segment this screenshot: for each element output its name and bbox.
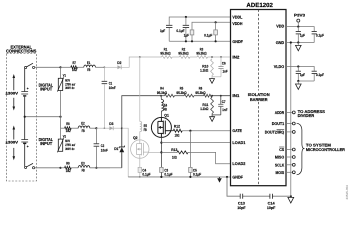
svg-text:±300V: ±300V bbox=[6, 141, 19, 145]
resistor R5 95.3k bbox=[184, 94, 194, 97]
wire common node up to V1 bbox=[60, 91, 62, 117]
svg-text:ADE1202: ADE1202 bbox=[246, 2, 273, 9]
svg-text:+: + bbox=[27, 144, 29, 148]
wire R6 to IN1 pin bbox=[212, 95, 230, 97]
svg-text:390V dc: 390V dc bbox=[65, 86, 74, 90]
junction VLDO/caps bbox=[297, 65, 299, 67]
junction GNDF pin bbox=[226, 176, 228, 178]
capacitor C7 1nF bbox=[220, 96, 222, 104]
wire V1 node to R7 bbox=[61, 66, 71, 68]
junction C1 bottom bbox=[104, 127, 106, 129]
wire D2 to riser and IN2 line bbox=[121, 57, 161, 67]
isolation barrier dashed line bbox=[258, 10, 260, 186]
junction R10 top bbox=[211, 56, 213, 58]
svg-text:10Ω: 10Ω bbox=[175, 133, 180, 137]
resistor R1 95.3k bbox=[162, 56, 173, 59]
wire Q1 source down bbox=[160, 137, 162, 167]
wire D3 to D1 junction bbox=[113, 127, 122, 129]
svg-text:E2: E2 bbox=[81, 122, 84, 126]
svg-text:C1: C1 bbox=[109, 81, 112, 85]
label ISOLATION BARRIER bbox=[245, 91, 272, 103]
capacitor 1uF (VDDH, box) bbox=[190, 30, 194, 35]
ferrite bead E1 bbox=[84, 65, 96, 67]
svg-text:DOUT2/IRQ: DOUT2/IRQ bbox=[265, 129, 285, 134]
IC U1 ADE1202 box bbox=[231, 10, 287, 186]
svg-text:1nF: 1nF bbox=[222, 108, 228, 112]
svg-text:95.3kΩ: 95.3kΩ bbox=[196, 52, 206, 56]
junction C3 rail bbox=[160, 176, 162, 178]
wire LOAD1 bbox=[161, 142, 230, 144]
capacitor 0.1uF (VDDH, box) bbox=[215, 22, 217, 30]
bottom source down arrow bbox=[13, 148, 15, 157]
junction battery center tap bbox=[24, 116, 26, 118]
svg-text:FB: FB bbox=[87, 68, 90, 72]
svg-text:1.1kΩ: 1.1kΩ bbox=[200, 107, 208, 111]
svg-text:0.1μF: 0.1μF bbox=[164, 173, 173, 177]
battery B2 (bottom +-300V source) bbox=[24, 117, 26, 140]
ground IN2 RC (open triangle) bbox=[211, 77, 213, 79]
junction gate/C5 bbox=[189, 130, 191, 132]
svg-text:+: + bbox=[27, 86, 29, 90]
svg-text:V1: V1 bbox=[63, 74, 66, 78]
svg-text:0.1μF: 0.1μF bbox=[142, 173, 151, 177]
external connections dashed box bbox=[7, 54, 37, 182]
junction C6 top bbox=[220, 56, 222, 58]
wire VDDL rail bbox=[169, 17, 230, 25]
wire R10-C6 join bbox=[212, 76, 221, 78]
junction VDDH 0.1uF bottom bbox=[215, 40, 217, 42]
capacitor 1uF (VLDO) bbox=[297, 67, 299, 71]
varistor V2 bbox=[60, 128, 62, 139]
top source down arrow bbox=[13, 98, 15, 107]
ground under VLDO caps (open triangle) bbox=[297, 81, 299, 84]
wire R13 to LOAD2 bbox=[188, 152, 231, 163]
svg-text:0.1μF: 0.1μF bbox=[316, 33, 325, 37]
wire Q2 gate to R13 node bbox=[148, 151, 161, 153]
svg-text:95.3kΩ: 95.3kΩ bbox=[157, 91, 167, 95]
wire IN2 node down to E5 bbox=[139, 57, 141, 122]
logic ground (open triangle, bottom right) bbox=[288, 197, 294, 203]
svg-text:95.3kΩ: 95.3kΩ bbox=[176, 91, 186, 95]
resistor R8 10ohm bbox=[65, 127, 72, 130]
varistor V1 bbox=[60, 67, 62, 78]
junction VDDH 1uF bottom bbox=[191, 40, 193, 42]
svg-text:10Ω: 10Ω bbox=[172, 155, 177, 159]
ferrite bead E3 bbox=[78, 166, 90, 168]
wire R11-C7 join bbox=[212, 114, 221, 116]
wire R4-R5 bbox=[175, 95, 185, 97]
resistor R3 95.3k bbox=[197, 56, 208, 59]
svg-text:1μF: 1μF bbox=[184, 34, 190, 38]
wire common node down to middle line bbox=[60, 117, 62, 129]
wire V2 node to R9 bbox=[61, 167, 65, 169]
svg-text:MICROCONTROLLER: MICROCONTROLLER bbox=[306, 147, 345, 152]
svg-text:10pF: 10pF bbox=[237, 206, 246, 210]
svg-text:C7: C7 bbox=[222, 100, 226, 104]
wire E3 to D1 bbox=[90, 167, 110, 169]
wire C2 node to D3 bbox=[96, 127, 109, 129]
wire Q2 source to C4 bbox=[139, 158, 141, 167]
wire C1 node to D2 bbox=[104, 66, 117, 68]
junction stitching rail / logic gnd bbox=[290, 195, 292, 197]
svg-text:VDDL: VDDL bbox=[232, 15, 243, 20]
svg-text:BARRIER: BARRIER bbox=[250, 97, 268, 102]
capacitor 1uF (VDD) bbox=[297, 27, 299, 32]
svg-text:FB: FB bbox=[82, 169, 85, 173]
svg-text:MOSI: MOSI bbox=[276, 170, 285, 175]
svg-text:10Ω: 10Ω bbox=[66, 169, 71, 173]
field ground rail bbox=[128, 176, 230, 178]
svg-text:VDD: VDD bbox=[276, 23, 284, 28]
svg-text:Q2: Q2 bbox=[133, 136, 138, 140]
svg-text:INPUT: INPUT bbox=[40, 87, 52, 92]
svg-text:C14: C14 bbox=[268, 201, 276, 205]
svg-text:GATE: GATE bbox=[232, 128, 242, 133]
wire E1 to C1 node bbox=[95, 66, 104, 68]
svg-text:C13: C13 bbox=[238, 201, 245, 205]
junction D1 / IN1 riser bbox=[121, 127, 123, 129]
ferrite bead E2 bbox=[78, 126, 90, 128]
wire IN1 riser bbox=[122, 96, 161, 129]
svg-text:D3: D3 bbox=[109, 122, 113, 126]
junction R13 left bbox=[160, 151, 162, 153]
svg-text:GNDF: GNDF bbox=[232, 175, 243, 180]
wire R12 to GATE pin bbox=[182, 130, 230, 132]
wire R5-R6 bbox=[194, 95, 204, 97]
svg-text:ADDR: ADDR bbox=[275, 110, 285, 115]
wire top switch to node bbox=[35, 66, 61, 68]
svg-text:R13: R13 bbox=[171, 148, 177, 152]
svg-text:FB: FB bbox=[82, 129, 85, 133]
svg-text:GNDF: GNDF bbox=[232, 39, 243, 44]
svg-text:IN2: IN2 bbox=[232, 55, 240, 60]
svg-text:10pF: 10pF bbox=[267, 206, 276, 210]
logic ground under VDD caps (open triangle) bbox=[297, 43, 299, 46]
svg-text:VDDH: VDDH bbox=[232, 21, 242, 26]
top source up arrow bbox=[13, 77, 15, 90]
right pin stubs and terminals (ADDR DOUT1 DOUT2 CS MISO SCLK MOSI) bbox=[286, 111, 292, 113]
wire MOV node to R8 bbox=[61, 127, 65, 129]
wire E5 to Q2 bbox=[139, 132, 141, 141]
ground IN1 RC (open triangle) bbox=[211, 115, 213, 117]
svg-text:R12: R12 bbox=[174, 125, 180, 129]
ferrite bead E4 bbox=[160, 96, 162, 100]
wire R9 to E3 bbox=[71, 167, 78, 169]
svg-text:LOAD2: LOAD2 bbox=[232, 161, 246, 166]
capacitor C6 1nF bbox=[220, 57, 222, 66]
wire R8 to E2 bbox=[71, 127, 78, 129]
junction C1 top bbox=[104, 66, 106, 68]
svg-text:1μF: 1μF bbox=[160, 29, 166, 33]
svg-text:V2: V2 bbox=[63, 135, 66, 139]
svg-text:R7: R7 bbox=[73, 61, 76, 65]
VLDO net wire bbox=[286, 67, 314, 71]
capacitor 0.1uF (VLDO) bbox=[312, 70, 317, 72]
transistor Q2 (optional FET) bbox=[131, 140, 149, 158]
svg-text:CS: CS bbox=[279, 147, 284, 152]
svg-text:LOAD1: LOAD1 bbox=[232, 140, 246, 145]
svg-text:INPUT: INPUT bbox=[40, 141, 52, 146]
svg-text:FB: FB bbox=[144, 128, 147, 132]
GNDF rail top bbox=[169, 40, 230, 42]
svg-text:IN1: IN1 bbox=[232, 93, 240, 98]
wire R1-R2 bbox=[172, 56, 179, 58]
svg-text:VLDO: VLDO bbox=[274, 64, 285, 69]
svg-text:D2: D2 bbox=[117, 61, 121, 65]
svg-text:FB: FB bbox=[164, 108, 167, 112]
svg-text:DOUT1: DOUT1 bbox=[272, 121, 285, 126]
svg-text:CONNECTIONS: CONNECTIONS bbox=[6, 49, 37, 54]
resistor R12 10ohm bbox=[173, 129, 182, 132]
svg-text:0.1μF: 0.1μF bbox=[204, 34, 213, 38]
resistor R4 95.3k bbox=[165, 94, 175, 97]
switch S2 (bottom) bbox=[25, 166, 27, 168]
common center-tap wire bbox=[25, 116, 61, 118]
battery B1 (top +-300V source) bbox=[24, 68, 26, 91]
capacitor C3 0.1uF (box) bbox=[160, 167, 163, 172]
capacitor C2 10nF bbox=[95, 128, 97, 143]
zener diode D1 bbox=[121, 128, 123, 146]
diode D3 bbox=[109, 126, 113, 130]
svg-text:R9: R9 bbox=[66, 162, 69, 166]
GND descender to stitching rail bbox=[290, 43, 292, 197]
svg-text:C6: C6 bbox=[222, 62, 226, 66]
svg-text:95.3kΩ: 95.3kΩ bbox=[160, 52, 170, 56]
svg-text:R8: R8 bbox=[66, 122, 69, 126]
svg-text:E1: E1 bbox=[87, 61, 90, 65]
svg-text:E3: E3 bbox=[81, 161, 84, 165]
wire R7 to E1 bbox=[77, 66, 83, 68]
svg-text:10Ω: 10Ω bbox=[66, 129, 71, 133]
svg-text:0.1μF: 0.1μF bbox=[316, 73, 325, 77]
wire VDDH rail bbox=[192, 22, 231, 30]
junction 0.1uF VDDH top bbox=[215, 21, 217, 23]
svg-text:Q1: Q1 bbox=[164, 114, 169, 118]
junction common / MOV column bbox=[59, 116, 61, 118]
svg-text:GND: GND bbox=[276, 40, 285, 45]
brace to system microcontroller bbox=[297, 123, 304, 175]
resistor R10 1.1k bbox=[211, 59, 214, 76]
svg-text:1μF: 1μF bbox=[300, 73, 306, 77]
capacitor 0.1uF (VDD) bbox=[312, 31, 317, 33]
resistor R6 95.3k bbox=[204, 94, 213, 97]
svg-text:95.3kΩ: 95.3kΩ bbox=[178, 52, 188, 56]
capacitor C4 0.1uF (box) bbox=[138, 167, 141, 172]
junction P3V3/VDD bbox=[297, 26, 299, 28]
svg-text:0.1μF: 0.1μF bbox=[193, 173, 202, 177]
switch S1 (top) bbox=[25, 66, 27, 68]
svg-text:P3V3: P3V3 bbox=[294, 13, 305, 17]
svg-text:DIVIDER: DIVIDER bbox=[298, 113, 315, 118]
svg-text:1μF: 1μF bbox=[300, 33, 306, 37]
svg-text:10nF: 10nF bbox=[101, 148, 109, 152]
GND net wire bbox=[286, 42, 314, 44]
wire bottom switch to node bbox=[35, 167, 61, 169]
resistor R13 10ohm bbox=[161, 151, 177, 153]
junction C4 rail bbox=[139, 176, 141, 178]
resistor R2 95.3k bbox=[179, 56, 190, 59]
svg-text:1nF: 1nF bbox=[223, 70, 229, 74]
svg-text:23515-004: 23515-004 bbox=[345, 185, 349, 200]
wire R2-R3 bbox=[190, 56, 197, 58]
VDD net wire bbox=[286, 27, 314, 32]
wire GNDF to stitching rail bbox=[227, 177, 290, 196]
junction C5 rail bbox=[189, 176, 191, 178]
junction LOAD1 bbox=[160, 142, 162, 144]
junction GND descender bbox=[290, 41, 292, 43]
VLDO caps bottom join bbox=[298, 80, 314, 82]
junction E4 top bbox=[160, 95, 162, 97]
svg-text:MISO: MISO bbox=[275, 155, 284, 160]
svg-text:10Ω: 10Ω bbox=[72, 68, 77, 72]
junction C2 bottom bbox=[95, 167, 97, 169]
wire E2 to C2 node bbox=[90, 127, 97, 129]
svg-text:C2: C2 bbox=[101, 144, 104, 148]
resistor R9 10ohm bbox=[65, 166, 72, 169]
capacitor C13 10uF bbox=[240, 194, 243, 199]
resistor R11 1.1k bbox=[211, 97, 214, 114]
svg-text:D1: D1 bbox=[114, 147, 118, 151]
junction GND/caps bbox=[297, 41, 299, 43]
junction R11 top bbox=[211, 95, 213, 97]
resistor R7 10ohm bbox=[71, 66, 78, 69]
svg-text:390V dc: 390V dc bbox=[65, 147, 74, 151]
transistor Q1 bbox=[151, 117, 171, 137]
svg-text:R11: R11 bbox=[202, 103, 208, 107]
junction C2 top bbox=[95, 127, 97, 129]
svg-text:95.3kΩ: 95.3kΩ bbox=[195, 91, 205, 95]
svg-text:±300V: ±300V bbox=[6, 91, 19, 95]
junction top line / V1 bbox=[59, 66, 61, 68]
wire to R4 bbox=[161, 95, 164, 97]
wire R3 to IN2 pin bbox=[208, 56, 231, 58]
capacitor C1 10nF bbox=[103, 67, 105, 81]
wire D3 node down to ground rail bbox=[122, 128, 128, 177]
junction VLDO gnd bbox=[297, 80, 299, 82]
field ground (filled triangle) bbox=[217, 178, 222, 182]
capacitor C14 10uF bbox=[270, 194, 273, 199]
svg-text:C3: C3 bbox=[164, 168, 168, 172]
junction 0.1uF VDDL top bbox=[185, 16, 187, 18]
bottom source up arrow bbox=[13, 129, 15, 140]
junction IN2 / Q2 branch bbox=[139, 56, 141, 58]
capacitor C5 0.1uF (box) on gate net bbox=[189, 131, 191, 168]
wire Q1 gate to R12 bbox=[171, 130, 174, 132]
svg-text:SCLK: SCLK bbox=[275, 162, 284, 167]
wire D1 bottom corner bbox=[110, 167, 122, 169]
capacitor 1uF (VDDL) bbox=[166, 24, 172, 26]
ferrite bead E5 bbox=[140, 122, 142, 132]
diode D2 bbox=[117, 65, 121, 69]
junction bottom line / V2 bbox=[59, 167, 61, 169]
junction C7 top bbox=[220, 95, 222, 97]
svg-text:R10: R10 bbox=[202, 64, 208, 68]
svg-text:C5: C5 bbox=[193, 168, 197, 172]
capacitor 0.1uF (VDDL) bbox=[185, 17, 187, 25]
junction VDDL 0.1uF bottom bbox=[185, 40, 187, 42]
svg-text:10nF: 10nF bbox=[109, 86, 117, 90]
svg-text:1.1kΩ: 1.1kΩ bbox=[200, 69, 208, 73]
